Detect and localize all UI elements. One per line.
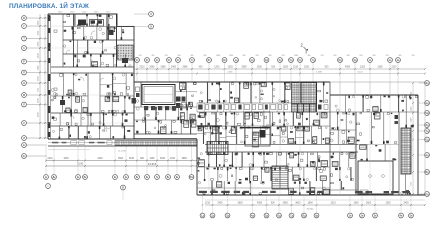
svg-text:2210: 2210 [391, 67, 397, 69]
svg-text:ПЛАНИРОВКА. 1Й ЭТАЖ: ПЛАНИРОВКА. 1Й ЭТАЖ [9, 1, 89, 10]
svg-text:4000: 4000 [257, 203, 263, 205]
svg-text:318: 318 [138, 55, 141, 57]
svg-text:3600: 3600 [118, 158, 124, 160]
svg-text:3д: 3д [265, 58, 268, 62]
svg-text:Вд: Вд [425, 170, 429, 174]
svg-text:318: 318 [320, 55, 323, 57]
svg-text:2080: 2080 [149, 67, 155, 69]
svg-text:2680: 2680 [229, 55, 233, 57]
svg-text:2400: 2400 [217, 203, 223, 205]
svg-text:4000: 4000 [345, 67, 351, 69]
svg-text:3600: 3600 [366, 203, 372, 205]
svg-text:2680: 2680 [216, 55, 220, 57]
svg-text:3180: 3180 [283, 67, 289, 69]
svg-text:Л: Л [23, 103, 25, 107]
svg-text:485: 485 [398, 55, 401, 57]
svg-text:8д: 8д [339, 58, 342, 62]
svg-text:2210: 2210 [139, 67, 145, 69]
svg-text:318: 318 [411, 55, 414, 57]
svg-text:4000: 4000 [63, 158, 69, 160]
svg-text:7д: 7д [312, 58, 315, 62]
svg-text:31,940: 31,940 [307, 209, 314, 211]
svg-text:1200: 1200 [214, 67, 220, 69]
svg-text:485: 485 [190, 55, 193, 57]
svg-text:485: 485 [333, 55, 336, 57]
svg-text:6д: 6д [299, 58, 302, 62]
svg-text:1520: 1520 [304, 67, 310, 69]
svg-text:2080: 2080 [283, 203, 289, 205]
svg-text:2,680: 2,680 [227, 72, 233, 74]
svg-text:960: 960 [359, 55, 362, 57]
svg-text:2210: 2210 [170, 158, 176, 160]
svg-text:1450: 1450 [149, 158, 155, 160]
svg-text:2210: 2210 [331, 203, 337, 205]
svg-text:Нд: Нд [425, 101, 429, 105]
svg-text:1520: 1520 [228, 67, 234, 69]
svg-text:1800: 1800 [237, 203, 243, 205]
svg-text:318: 318 [281, 55, 284, 57]
svg-text:2д: 2д [211, 214, 214, 218]
svg-text:2400: 2400 [403, 203, 409, 205]
svg-text:1,849: 1,849 [316, 72, 322, 74]
svg-text:Ад: Ад [425, 153, 429, 157]
svg-text:2680: 2680 [160, 67, 166, 69]
svg-text:3600: 3600 [295, 203, 301, 205]
svg-text:9д: 9д [315, 214, 318, 218]
svg-text:2080: 2080 [241, 67, 247, 69]
svg-text:9д: 9д [354, 58, 357, 62]
svg-text:Юд: Юд [425, 111, 430, 115]
svg-text:Н: Н [23, 81, 25, 85]
svg-text:П: П [23, 71, 25, 75]
svg-text:1200: 1200 [257, 67, 263, 69]
svg-text:Р: Р [23, 60, 25, 64]
svg-text:И: И [23, 136, 25, 140]
svg-text:318: 318 [385, 55, 388, 57]
svg-text:Кд: Кд [425, 138, 429, 142]
svg-text:1800: 1800 [308, 203, 314, 205]
svg-text:8д: 8д [303, 214, 306, 218]
svg-text:1520: 1520 [385, 203, 391, 205]
svg-text:Тд: Тд [425, 129, 429, 133]
svg-text:2210: 2210 [205, 203, 211, 205]
svg-text:3180: 3180 [129, 158, 135, 160]
svg-text:2400: 2400 [97, 158, 103, 160]
svg-text:485: 485 [268, 55, 271, 57]
svg-text:2210: 2210 [47, 158, 53, 160]
svg-text:3180: 3180 [377, 67, 383, 69]
svg-text:С: С [23, 46, 25, 50]
svg-text:Яд: Яд [425, 81, 429, 85]
svg-text:485: 485 [203, 55, 206, 57]
svg-text:Ф: Ф [23, 16, 25, 20]
svg-text:1д: 1д [201, 214, 204, 218]
svg-text:4д: 4д [251, 214, 254, 218]
svg-text:485: 485 [151, 55, 154, 57]
svg-text:2680: 2680 [294, 55, 298, 57]
svg-text:2д: 2д [251, 58, 254, 62]
svg-text:1200: 1200 [360, 67, 366, 69]
svg-text:348: 348 [177, 55, 180, 57]
svg-text:960: 960 [372, 55, 375, 57]
svg-text:485: 485 [307, 55, 310, 57]
svg-text:7д: 7д [290, 214, 293, 218]
svg-text:2680: 2680 [182, 158, 188, 160]
svg-text:3д: 3д [226, 214, 229, 218]
svg-text:318: 318 [164, 55, 167, 57]
svg-text:3,120: 3,120 [357, 72, 363, 74]
svg-text:Ф: Ф [122, 186, 124, 190]
svg-text:1д: 1д [235, 58, 238, 62]
svg-text:8д: 8д [426, 123, 429, 127]
svg-text:2680: 2680 [182, 67, 188, 69]
svg-text:5д: 5д [265, 214, 268, 218]
svg-text:348: 348 [255, 55, 258, 57]
svg-text:М: М [23, 93, 25, 97]
svg-text:3180: 3180 [160, 158, 166, 160]
svg-text:Сд: Сд [425, 192, 429, 196]
svg-text:14,315: 14,315 [148, 162, 157, 166]
svg-text:1800: 1800 [353, 203, 359, 205]
svg-text:5д: 5д [290, 58, 293, 62]
svg-text:485: 485 [242, 55, 245, 57]
svg-text:2400: 2400 [171, 67, 177, 69]
svg-text:3,190: 3,190 [77, 163, 84, 166]
svg-text:(1,179): (1,179) [119, 151, 126, 153]
svg-text:2210: 2210 [293, 67, 299, 69]
svg-text:348: 348 [346, 55, 349, 57]
svg-text:6д: 6д [278, 214, 281, 218]
svg-text:4д: 4д [279, 58, 282, 62]
